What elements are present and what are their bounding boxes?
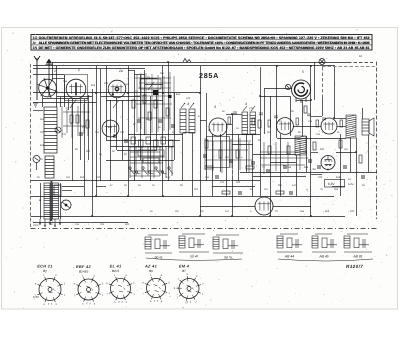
tube B4a diode section <box>255 197 273 215</box>
resistor R21 <box>222 191 230 194</box>
IF coil L7 <box>242 112 248 134</box>
wire <box>293 126 321 128</box>
svg-text:0a5: 0a5 <box>63 80 68 83</box>
svg-text:100: 100 <box>186 97 191 100</box>
wire <box>106 140 180 142</box>
svg-text:GOLFBEREIKEN AFREGELING 16.5–5: GOLFBEREIKEN AFREGELING 16.5–50•187–577•… <box>39 36 370 40</box>
svg-text:8a2: 8a2 <box>80 176 85 179</box>
wire <box>111 146 174 148</box>
capacitor C10 <box>229 160 233 162</box>
svg-text:AB 45: AB 45 <box>318 255 328 259</box>
resistor R14 <box>287 146 290 154</box>
detector stage box <box>207 137 230 168</box>
svg-text:500: 500 <box>125 223 130 226</box>
tube B2 <box>108 80 126 98</box>
trimmer arrow <box>70 100 76 108</box>
B2 cathode blob <box>112 93 114 95</box>
wire <box>134 70 136 181</box>
svg-text:4: 4 <box>245 102 247 106</box>
wire <box>206 93 208 181</box>
T1 primary side wire <box>40 183 42 219</box>
junction <box>355 151 357 153</box>
wire <box>60 97 62 107</box>
switch wiper blob <box>153 90 159 95</box>
wire <box>162 66 164 196</box>
wire <box>43 98 88 100</box>
wire <box>128 134 183 136</box>
tube B7 EM4 tuning indicator <box>292 80 311 103</box>
wire <box>182 133 184 181</box>
svg-text:220: 220 <box>104 82 109 85</box>
svg-text:0a5: 0a5 <box>300 210 305 213</box>
svg-text:DE MET • GEMERKTE ONDERDELEN Z: DE MET • GEMERKTE ONDERDELEN ZIJN GEMONT… <box>39 46 370 50</box>
wire <box>106 66 108 140</box>
resistor R16 <box>313 142 316 150</box>
capacitor C13 <box>283 166 287 168</box>
svg-text:100: 100 <box>96 176 101 179</box>
IF unit detail box 1 <box>145 235 172 253</box>
wire <box>252 134 254 196</box>
wire <box>33 74 64 76</box>
dashed right border <box>376 62 378 220</box>
T1 core bars <box>51 181 52 221</box>
wire <box>362 108 364 119</box>
tube base diagram ECH21 <box>37 277 62 302</box>
resistor R7 <box>143 95 146 103</box>
shield box around hexode <box>65 75 88 101</box>
T1 secondary side wire <box>60 183 62 219</box>
junction <box>276 65 278 67</box>
wire <box>322 97 324 116</box>
wire <box>192 133 194 196</box>
junction <box>333 117 335 119</box>
IF coil L5 <box>180 109 186 133</box>
junction <box>162 195 164 197</box>
wire <box>273 206 311 208</box>
svg-text:B7: B7 <box>182 269 186 273</box>
coupling components between tubes <box>228 112 343 127</box>
header title block frame <box>31 35 372 51</box>
antenna coil assembly L1 <box>44 107 57 153</box>
resistor R22 <box>276 191 284 194</box>
svg-text:2k2: 2k2 <box>86 150 91 153</box>
wire <box>242 134 256 136</box>
svg-text:0a1: 0a1 <box>95 131 100 134</box>
wire <box>106 100 163 102</box>
wire <box>101 96 140 98</box>
svg-text:4a7: 4a7 <box>225 210 230 213</box>
svg-text:220: 220 <box>40 131 45 134</box>
svg-text:220V: 220V <box>33 224 39 227</box>
wire <box>226 124 232 126</box>
wire <box>296 100 311 102</box>
svg-text:3n9: 3n9 <box>40 118 45 121</box>
wire <box>336 152 356 154</box>
svg-text:500: 500 <box>236 181 241 184</box>
tube base diagram EM4 <box>176 276 201 301</box>
capacitor C7 <box>158 120 162 122</box>
junction <box>127 92 129 94</box>
loudspeaker <box>362 118 374 136</box>
tube base diagram EL41 <box>109 277 132 300</box>
svg-text:4: 4 <box>187 102 189 106</box>
IF coil L8 <box>250 112 256 134</box>
svg-text:3n9: 3n9 <box>325 210 330 213</box>
svg-text:EBF 42: EBF 42 <box>76 264 92 269</box>
wire <box>150 96 152 181</box>
wire <box>368 135 370 172</box>
capacitor C12 <box>266 170 270 172</box>
converter stage dense wiring <box>134 72 174 134</box>
output area extra wiring <box>260 142 308 174</box>
wire <box>183 132 195 134</box>
svg-text:1Ω: 1Ω <box>33 36 38 40</box>
trimmer arrow <box>148 82 154 90</box>
oscillator section box <box>140 79 161 89</box>
wire <box>56 66 58 107</box>
wire <box>96 66 98 196</box>
resistor R6 <box>132 100 135 108</box>
resistor R3 <box>86 120 89 128</box>
dial lamp 2 <box>285 84 290 89</box>
wire <box>260 67 262 196</box>
svg-text:4a7: 4a7 <box>225 156 230 159</box>
IF unit detail box 5 <box>312 234 337 252</box>
antenna symbol 1 (funnel) <box>34 56 40 100</box>
capacitor C5 <box>124 140 128 142</box>
capacitor C21 <box>289 192 293 194</box>
wire <box>96 186 106 188</box>
svg-text:8a2: 8a2 <box>176 93 181 96</box>
wire <box>80 99 82 160</box>
IF unit detail box 2 <box>179 234 209 252</box>
junction <box>310 215 312 217</box>
tube B1 ECH21 oscillator section <box>38 78 58 98</box>
svg-text:6,3V~: 6,3V~ <box>348 183 355 186</box>
svg-text:2M: 2M <box>278 184 281 187</box>
wire <box>334 118 346 120</box>
wire <box>311 152 318 154</box>
top bus line <box>52 62 348 64</box>
svg-text:3: 3 <box>214 105 216 109</box>
tube B5 EL41 output <box>321 118 337 134</box>
wire <box>332 186 345 188</box>
wire <box>260 96 290 98</box>
tube B1 ECH21 hexode section <box>66 79 86 99</box>
wire <box>350 138 352 172</box>
wire <box>168 62 170 181</box>
capacitor C20 <box>238 192 242 194</box>
resistor R23 <box>148 112 151 120</box>
svg-text:5: 5 <box>302 70 304 74</box>
wire <box>72 99 74 181</box>
svg-text:5a: 5a <box>313 167 317 171</box>
svg-text:6n8: 6n8 <box>40 144 45 147</box>
wire <box>33 102 96 104</box>
svg-text:15n: 15n <box>75 223 80 226</box>
svg-text:B2+B3: B2+B3 <box>79 270 89 274</box>
resistor R10 <box>219 150 222 158</box>
diode circle D1 <box>33 156 40 171</box>
svg-text:AZ 41: AZ 41 <box>144 264 157 269</box>
AZ41 cathode junction <box>327 169 329 171</box>
junction <box>199 215 201 217</box>
wire <box>33 68 145 70</box>
wire <box>116 98 118 150</box>
AVC bus rail <box>31 180 261 182</box>
svg-text:1M: 1M <box>264 188 267 191</box>
wire <box>128 66 130 196</box>
svg-text:1: 1 <box>54 69 56 73</box>
svg-text:1N: 1N <box>33 46 38 50</box>
wire <box>64 75 66 107</box>
tube B6 AZ41 rectifier <box>321 156 335 170</box>
wire <box>144 70 146 135</box>
chassis rail <box>31 216 346 218</box>
wire <box>174 93 176 160</box>
wire <box>122 100 124 160</box>
wire <box>68 99 70 110</box>
resistor R8 <box>154 100 157 108</box>
wire <box>340 134 342 196</box>
wire <box>200 120 206 122</box>
svg-text:56 ³a: 56 ³a <box>224 256 232 260</box>
svg-text:0a1: 0a1 <box>160 72 165 75</box>
svg-text:ECH 21: ECH 21 <box>37 264 52 269</box>
wire <box>110 100 112 181</box>
trimmer arrows over L7 L8 <box>243 106 255 111</box>
wire <box>253 154 296 156</box>
IF coil L6 <box>189 109 195 133</box>
svg-text:1M: 1M <box>175 210 178 213</box>
second top bus line <box>33 65 335 67</box>
output transformer T2 <box>346 115 356 138</box>
junction <box>259 95 261 97</box>
wire <box>337 126 346 128</box>
junction <box>231 113 233 115</box>
svg-text:R120/7: R120/7 <box>346 264 363 269</box>
wire <box>290 96 292 136</box>
junction <box>127 195 129 197</box>
wire <box>100 69 102 181</box>
wire <box>270 96 272 216</box>
wire <box>310 66 312 216</box>
svg-text:EL 41: EL 41 <box>110 264 122 269</box>
B2 center ring <box>115 87 119 91</box>
wire <box>212 186 255 188</box>
wire <box>52 78 64 80</box>
dashed top of dial box <box>322 66 377 68</box>
wire <box>134 74 145 76</box>
heater bus rail <box>31 196 335 198</box>
svg-text:3n9: 3n9 <box>91 84 96 87</box>
switch bank extra contacts <box>130 146 172 178</box>
oscillator coil L2 <box>45 156 54 178</box>
IF unit detail box 4 <box>277 234 302 252</box>
wire <box>200 206 255 208</box>
svg-text:4a7: 4a7 <box>292 184 297 187</box>
bottom chassis line (dash-dot) <box>31 228 378 230</box>
wire <box>212 134 214 196</box>
resistor R19 <box>205 166 213 169</box>
earth terminal <box>33 103 38 107</box>
tube base diagram EBF42 <box>76 277 100 301</box>
resistor R9 <box>205 140 208 148</box>
wire <box>145 84 163 86</box>
wire <box>62 186 84 188</box>
wire <box>302 100 304 136</box>
tube B4 AF stage <box>277 118 294 135</box>
capacitor C16 <box>343 166 347 168</box>
resistor R11 <box>236 150 239 158</box>
resistor R15 <box>304 106 307 113</box>
wave band switch S1 contact bank <box>129 137 173 174</box>
wire <box>57 96 92 98</box>
capacitor C4 <box>113 135 117 137</box>
wire <box>140 75 142 160</box>
hexode cathode bar <box>75 83 77 96</box>
resistor R12 <box>258 120 261 128</box>
transformer bottom taps <box>39 219 61 226</box>
trimmer arrows over L5 L6 <box>181 103 194 108</box>
wire <box>117 150 157 152</box>
capacitor C6 <box>137 120 141 122</box>
wire <box>334 67 336 118</box>
zigzag break mark on top line <box>183 59 191 63</box>
HT rail right <box>240 172 377 174</box>
wire <box>238 134 240 181</box>
wire <box>232 114 234 216</box>
resistor R17 <box>339 140 342 148</box>
mains transformer T1 secondary <box>53 183 59 219</box>
svg-text:1R: 1R <box>359 55 362 58</box>
svg-text:1M: 1M <box>344 148 347 151</box>
wire <box>253 176 306 178</box>
junction <box>310 65 312 67</box>
resistor R18 <box>359 155 362 163</box>
wire <box>92 89 94 216</box>
trimmer arrow <box>113 100 119 108</box>
svg-text:2a: 2a <box>118 69 123 73</box>
svg-text:15n: 15n <box>205 176 210 179</box>
brace under left sub boxes <box>146 258 242 260</box>
junction <box>231 215 233 217</box>
wire <box>246 134 248 172</box>
capacitor C9 <box>203 155 207 157</box>
fuse holder <box>54 185 61 196</box>
wire <box>311 174 322 176</box>
wire <box>220 134 222 172</box>
capacitor C15 <box>317 166 321 168</box>
brace under right sub boxes <box>278 259 373 261</box>
svg-text:285A: 285A <box>199 71 219 80</box>
voltage selector disc <box>61 200 71 210</box>
wire <box>226 114 242 116</box>
tube B3 EBF42 IF/detector <box>209 118 227 136</box>
tube B2a converter triode <box>102 120 119 137</box>
resistor R2 <box>76 115 79 123</box>
schematic left border (dashed) <box>30 64 32 227</box>
wire <box>311 116 322 118</box>
junction <box>91 215 93 217</box>
wire <box>226 124 228 196</box>
wire <box>270 162 296 164</box>
wire <box>314 62 316 100</box>
wire <box>156 93 158 150</box>
mixer left dense wiring <box>62 104 90 138</box>
junction <box>95 92 97 94</box>
antenna symbol 2 (arrow) <box>46 59 53 96</box>
svg-text:6n8: 6n8 <box>125 83 130 86</box>
wire <box>33 110 43 112</box>
wire <box>62 190 72 192</box>
svg-text:220: 220 <box>318 176 323 179</box>
IF unit detail box 6 <box>344 234 372 252</box>
svg-text:0a1: 0a1 <box>66 176 71 179</box>
capacitor C17 <box>361 176 365 178</box>
wire <box>88 95 90 160</box>
wire <box>280 134 282 196</box>
svg-text:ALLE SPANNINGEN GEMETEN MET EL: ALLE SPANNINGEN GEMETEN MET ELECTRONISCH… <box>39 41 370 45</box>
dashed left of dial box <box>322 67 324 97</box>
wire <box>296 155 298 196</box>
detector area extra wiring <box>205 138 252 173</box>
output stage bottom rail <box>277 138 346 140</box>
svg-text:8a2: 8a2 <box>108 126 113 129</box>
wire <box>140 78 157 80</box>
wire <box>264 89 266 134</box>
svg-text:100: 100 <box>120 131 125 134</box>
svg-text:2k2: 2k2 <box>267 131 272 134</box>
junction <box>310 99 312 101</box>
wire <box>232 144 253 146</box>
svg-text:2M: 2M <box>200 210 203 213</box>
wire <box>106 160 174 162</box>
svg-text:3n9: 3n9 <box>304 166 309 169</box>
junction <box>162 92 164 94</box>
wire <box>200 66 202 216</box>
capacitor C19 <box>215 176 219 178</box>
svg-text:15n: 15n <box>308 120 313 123</box>
svg-text:AB 81: AB 81 <box>352 255 362 259</box>
top bus line dashed end <box>348 62 373 64</box>
svg-text:0a5: 0a5 <box>287 166 292 169</box>
wire <box>42 96 44 107</box>
svg-text:50 4²: 50 4² <box>190 255 199 259</box>
wire <box>264 88 292 90</box>
blob 2 <box>168 95 172 98</box>
svg-text:AB 44: AB 44 <box>284 255 294 259</box>
svg-text:220: 220 <box>350 210 355 213</box>
wire <box>226 134 260 136</box>
dial lamp 1 <box>319 59 325 65</box>
IF unit detail box 3 <box>213 235 243 253</box>
resistor R1 <box>70 115 73 123</box>
svg-text:2M: 2M <box>352 126 355 129</box>
junction <box>167 61 169 63</box>
tube base diagram AZ41 <box>145 277 167 299</box>
capacitor C11 <box>251 162 255 164</box>
6.3V heater box <box>325 180 345 188</box>
wire <box>52 62 54 79</box>
junction <box>269 215 271 217</box>
wire <box>306 136 308 172</box>
detector coil L9 <box>295 136 306 155</box>
svg-text:6,3V: 6,3V <box>328 182 335 186</box>
resistor R20 <box>246 166 254 169</box>
svg-text:B6: B6 <box>149 269 153 273</box>
svg-text:2k2: 2k2 <box>194 188 199 191</box>
